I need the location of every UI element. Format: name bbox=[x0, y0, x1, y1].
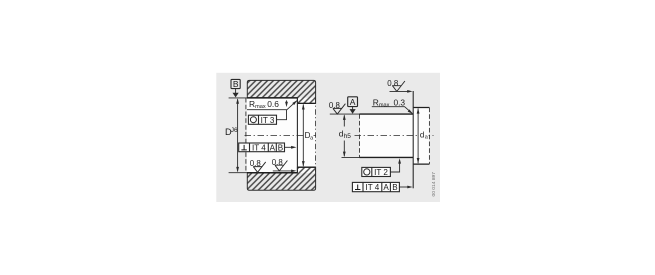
datum A box bbox=[348, 97, 358, 107]
roundness frame IT 3 bbox=[248, 115, 276, 125]
dimension Da line bbox=[302, 104, 314, 166]
datum A stem bbox=[352, 107, 354, 110]
Rmax 0.3 label bbox=[373, 97, 406, 108]
bore top extension line bbox=[229, 97, 247, 99]
Rmax 0.3 leader underline bbox=[372, 107, 412, 114]
break chain line right edge of bore bbox=[315, 98, 317, 173]
IT 3 leader bbox=[277, 110, 287, 120]
svg-text:A: A bbox=[350, 97, 356, 107]
seat bottom contour bbox=[360, 156, 414, 158]
perpendicularity leader (left) bbox=[285, 146, 294, 148]
shoulder bottom contour bbox=[413, 163, 429, 165]
bore top contour line bbox=[247, 97, 297, 99]
dimension D line bbox=[237, 99, 239, 171]
svg-text:B: B bbox=[233, 79, 239, 89]
bore white interior bbox=[247, 98, 316, 173]
centreline left figure bbox=[245, 134, 319, 136]
centreline right figure bbox=[355, 135, 434, 137]
label D J6 bbox=[225, 127, 238, 137]
svg-text:J6: J6 bbox=[231, 127, 238, 134]
shoulder top contour bbox=[413, 107, 429, 109]
bore bottom contour line bbox=[247, 172, 297, 174]
roughness 0.8 shoulder face with leader (top) bbox=[387, 79, 412, 93]
perpendicularity frame IT 4 A B (right) bbox=[352, 182, 399, 192]
roughness 0.8 bore surface bbox=[250, 159, 266, 172]
Rmax 0.6 label bbox=[249, 99, 279, 110]
Rmax corner arrow bbox=[292, 99, 298, 105]
IT 2 leader bbox=[390, 162, 399, 172]
shoulder bottom contour line bbox=[297, 166, 315, 168]
datum B stem bbox=[235, 89, 237, 94]
svg-text:IT 4: IT 4 bbox=[366, 183, 380, 192]
housing lower hatched block bbox=[247, 167, 315, 190]
shaft seat white body bbox=[360, 114, 414, 157]
shoulder top contour line bbox=[297, 102, 315, 104]
shoulder step face line bbox=[296, 98, 298, 173]
perpendicularity frame IT 4 A B (left) bbox=[239, 143, 285, 152]
bore left break line dashed bbox=[245, 98, 247, 173]
housing upper hatched block bbox=[247, 80, 315, 103]
datum B triangle bbox=[233, 93, 239, 98]
svg-text:A: A bbox=[270, 143, 276, 152]
roughness 0.8 seat surface (left) bbox=[329, 101, 346, 114]
seat left break line dashed bbox=[359, 114, 361, 157]
seat top extension line bbox=[330, 113, 360, 115]
svg-text:B: B bbox=[278, 143, 283, 152]
datum A triangle bbox=[350, 109, 356, 114]
svg-text:A: A bbox=[383, 183, 389, 192]
roughness 0.8 shoulder face with leader bbox=[272, 158, 297, 172]
roundness frame IT 2 bbox=[362, 167, 391, 177]
seat bottom extension line bbox=[342, 156, 360, 158]
svg-text:d: d bbox=[420, 130, 424, 139]
Rmax down arrow bbox=[286, 100, 288, 103]
shaft shoulder white body bbox=[413, 108, 429, 165]
bore bottom extension line bbox=[229, 172, 247, 174]
perpendicularity leader (right) bbox=[399, 186, 408, 188]
gray panel background bbox=[216, 73, 440, 202]
shoulder face line extended bbox=[412, 91, 414, 188]
svg-text:IT 4: IT 4 bbox=[252, 143, 266, 152]
svg-text:IT 3: IT 3 bbox=[261, 116, 275, 125]
dimension d h5 line bbox=[339, 115, 352, 158]
dimension da line bbox=[417, 108, 429, 163]
svg-text:00 014 897: 00 014 897 bbox=[431, 172, 437, 197]
svg-text:B: B bbox=[392, 183, 397, 192]
svg-text:IT 2: IT 2 bbox=[374, 168, 388, 177]
seat top contour bbox=[360, 113, 414, 115]
svg-text:h5: h5 bbox=[344, 133, 352, 140]
Rmax 0.3 corner arrow bbox=[408, 109, 414, 114]
datum B box bbox=[231, 79, 240, 89]
shoulder right break line dashed bbox=[428, 108, 430, 165]
Rmax 0.6 leader underline bbox=[247, 101, 297, 110]
